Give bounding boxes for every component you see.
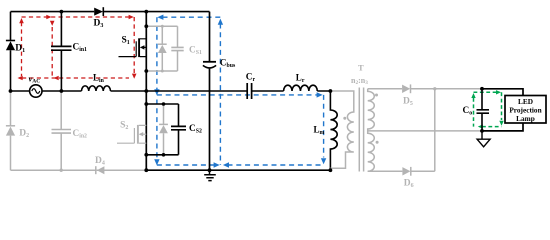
- wire bottom rail gray: [11, 169, 147, 171]
- transistor S2 (gray): [117, 120, 146, 143]
- node top Cin1: [60, 10, 64, 14]
- inductor Lr: [284, 72, 318, 91]
- ground: [204, 170, 216, 180]
- red current loop input: [22, 17, 135, 78]
- node Lm top: [329, 89, 333, 93]
- node D5-D6 junction (gray): [433, 87, 436, 90]
- wire output top: [482, 89, 524, 96]
- snubber loop S1 wires (gray): [146, 26, 177, 71]
- inductor Lin: [82, 72, 111, 91]
- wire top rail: [11, 11, 210, 13]
- wire mid rail: [11, 90, 331, 92]
- diode D5 (gray): [402, 84, 413, 106]
- source VAC: [29, 74, 43, 98]
- node rail Lm: [329, 168, 333, 172]
- wire bottom rail black: [146, 169, 330, 171]
- wire secondary bottom lead (gray): [368, 89, 435, 172]
- node Cin2 bottom (gray): [60, 169, 63, 172]
- node S1 snubber top: [144, 24, 148, 28]
- transformer T primary (gray): [330, 91, 353, 168]
- transformer core: [359, 88, 363, 172]
- capacitor Cbus: [203, 12, 236, 171]
- green current loop output: [474, 92, 502, 126]
- snubber loop S2 wires: [146, 104, 178, 155]
- svg-text:T: T: [358, 62, 364, 72]
- capacitor Cin2 (gray): [52, 91, 88, 170]
- LED Projection Lamp box: [505, 96, 546, 124]
- diode D6 (gray): [402, 167, 413, 189]
- node S2 snubber bottom: [144, 153, 148, 157]
- transistor S1: [119, 36, 147, 57]
- node half-bridge mid: [144, 89, 148, 93]
- capacitor CS1 (gray): [171, 26, 202, 71]
- capacitor Co: [463, 89, 490, 131]
- node output bottom: [480, 129, 484, 133]
- diode D3: [94, 7, 104, 29]
- inductor Lm: [314, 91, 338, 170]
- node output top: [480, 87, 484, 91]
- wire left border: [10, 12, 12, 91]
- svg-text:Lamp: Lamp: [516, 114, 535, 123]
- node rail Cbus: [208, 168, 212, 172]
- ground output: [477, 131, 490, 147]
- node mid Cin: [60, 89, 64, 93]
- node mid left border: [9, 89, 13, 93]
- capacitor Cr: [246, 72, 256, 99]
- diode D4 (gray): [95, 156, 105, 174]
- body diode S2 (gray): [159, 102, 168, 156]
- wire output bottom: [482, 123, 524, 131]
- wire center tap (gray): [368, 130, 482, 132]
- wire secondary top lead (gray): [368, 88, 482, 90]
- blue current loop half-bridge: [157, 17, 324, 165]
- node S1 snubber bottom: [144, 69, 148, 73]
- wire half-bridge leg: [145, 12, 147, 171]
- body diode S1 (gray): [158, 25, 167, 73]
- node top S1 drain: [144, 10, 148, 14]
- capacitor Cin1: [51, 12, 87, 91]
- transformer labels: [351, 62, 368, 86]
- capacitor CS2: [171, 104, 202, 155]
- blue current loop resonant: [157, 95, 324, 158]
- transformer secondary windings (gray): [368, 89, 379, 172]
- diode D2 (gray): [6, 91, 29, 170]
- diode D1: [6, 41, 25, 55]
- node rail S2: [144, 168, 148, 172]
- node S2 snubber top: [144, 102, 148, 106]
